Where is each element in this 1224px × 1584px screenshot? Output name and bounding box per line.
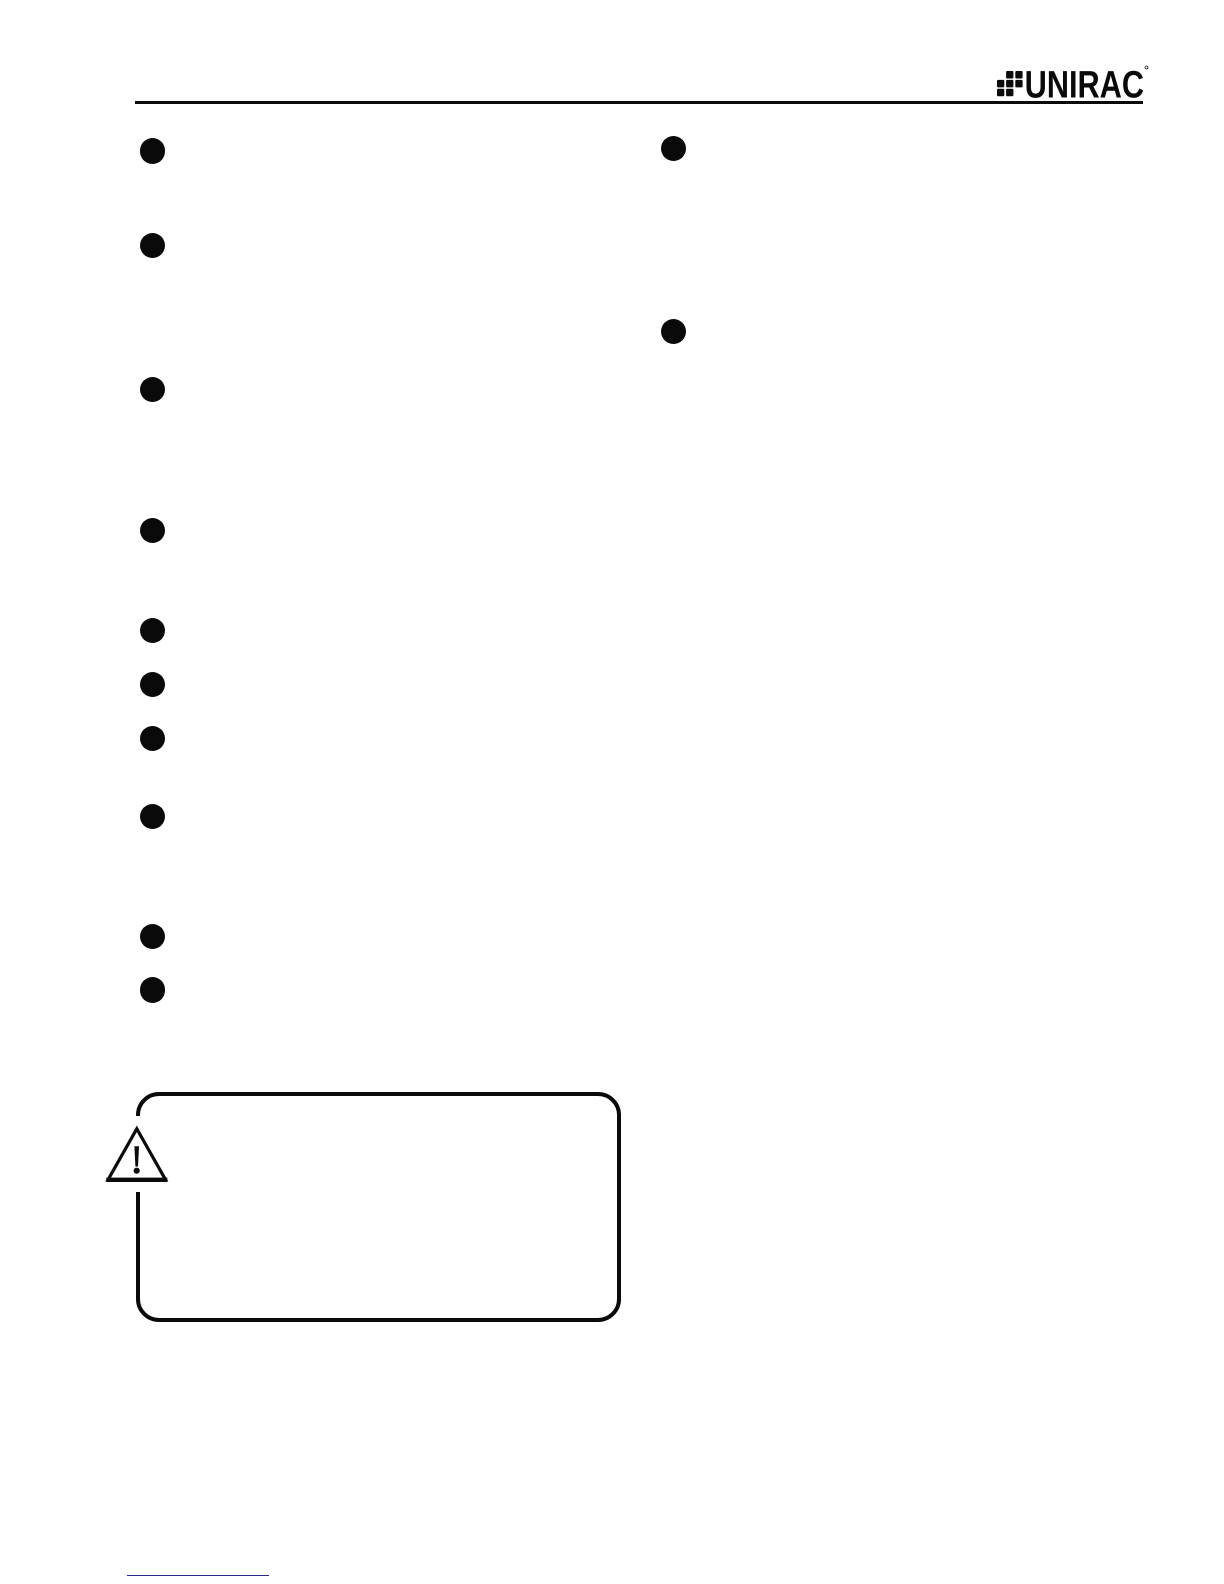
right column bullets <box>661 136 687 162</box>
warning triangle <box>100 1118 174 1188</box>
footer rule <box>127 1575 269 1577</box>
left column bullets <box>140 138 166 164</box>
gap in left border of warning box <box>128 1116 145 1192</box>
warning box <box>136 1092 622 1322</box>
registered mark <box>1144 65 1149 70</box>
header rule <box>135 101 1143 104</box>
UNIRAC logo text <box>1020 64 1150 104</box>
UNIRAC logo squares <box>997 71 1023 97</box>
